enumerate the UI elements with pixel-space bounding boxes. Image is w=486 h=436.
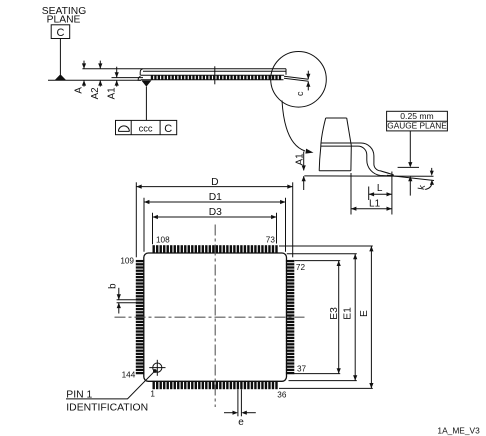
detail body left edge (319, 118, 326, 171)
svg-text:L1: L1 (369, 198, 381, 209)
dim D (136, 177, 292, 257)
svg-text:73: 73 (266, 236, 276, 245)
center line vertical (214, 225, 216, 408)
svg-text:b: b (108, 283, 119, 289)
svg-text:1A_ME_V3: 1A_ME_V3 (437, 425, 480, 435)
svg-text:ccc: ccc (139, 124, 153, 134)
dim E3 (294, 261, 341, 374)
pin 1 text (66, 389, 148, 413)
svg-text:C: C (57, 27, 65, 39)
dim A (74, 61, 87, 94)
svg-text:C: C (164, 123, 172, 135)
dim e (224, 389, 256, 428)
svg-text:A1: A1 (295, 153, 306, 165)
svg-text:A1: A1 (106, 87, 117, 99)
svg-text:D3: D3 (209, 207, 222, 218)
svg-text:108: 108 (156, 236, 170, 245)
dim A2 (90, 61, 103, 100)
side view lead band bottom (141, 79, 284, 81)
svg-text:IDENTIFICATION: IDENTIFICATION (66, 402, 148, 413)
svg-text:c: c (295, 91, 305, 96)
side view lead ticks (151, 75, 281, 79)
ccc leader (145, 87, 147, 121)
seating plane label (42, 6, 86, 26)
dim k (416, 168, 434, 191)
svg-text:1: 1 (150, 390, 155, 399)
svg-text:E: E (359, 310, 370, 317)
detail k angle line (387, 175, 434, 180)
svg-text:144: 144 (122, 371, 136, 380)
svg-text:L: L (377, 183, 383, 194)
main view body (144, 253, 287, 381)
svg-text:D: D (211, 177, 218, 188)
dim A1 (106, 67, 143, 100)
side view lead band top (141, 74, 285, 76)
center line horizontal (115, 316, 305, 318)
svg-text:A: A (74, 87, 85, 94)
dim b (108, 283, 136, 314)
main view pins (136, 245, 294, 389)
svg-text:72: 72 (296, 263, 306, 272)
side view left lead tip (138, 76, 141, 80)
svg-text:E1: E1 (343, 307, 354, 320)
detail body right edge (347, 118, 352, 171)
datum ccc triangle (141, 80, 151, 86)
gauge plane line (398, 166, 419, 168)
side view left end cap (140, 69, 143, 76)
svg-text:PIN 1: PIN 1 (66, 389, 92, 400)
dim E (279, 246, 374, 388)
svg-text:A2: A2 (90, 87, 101, 99)
svg-text:0.25 mm: 0.25 mm (400, 111, 433, 121)
side view right protruding lead (284, 76, 309, 81)
pin 1 leader (66, 370, 156, 399)
side view center tick (214, 66, 216, 84)
ccc feature control frame (116, 120, 177, 135)
svg-text:37: 37 (297, 364, 307, 373)
svg-text:E3: E3 (329, 307, 340, 320)
pin 1 identification circle (149, 360, 165, 376)
detail circle (271, 52, 327, 108)
datum C box (51, 25, 69, 39)
pin number labels (120, 236, 306, 400)
detail seating plane line (304, 175, 433, 177)
svg-text:e: e (238, 417, 244, 428)
side view body top line with A extension (82, 68, 286, 70)
dim D3 (153, 207, 277, 244)
detail body bottom (319, 170, 351, 172)
dim A1 detail (295, 152, 306, 191)
detail body top (326, 117, 347, 119)
dim E1 (287, 254, 358, 381)
detail lead outline (321, 143, 393, 176)
side view body second line (143, 70, 286, 72)
dim L (369, 172, 392, 215)
svg-text:36: 36 (277, 391, 287, 400)
dim c (295, 71, 310, 96)
detail leader curve (282, 101, 314, 154)
dim D1 (144, 192, 286, 252)
svg-text:PLANE: PLANE (47, 15, 81, 26)
datum C leader (59, 39, 61, 75)
dim L1 (351, 173, 392, 215)
svg-text:GAUGE PLANE: GAUGE PLANE (387, 121, 447, 131)
svg-text:D1: D1 (209, 192, 222, 203)
side view right end cap (285, 69, 287, 75)
seating plane line (48, 79, 141, 81)
datum C triangle (55, 74, 67, 80)
svg-text:109: 109 (120, 257, 134, 266)
gauge plane leader (408, 131, 412, 196)
gauge plane box (387, 111, 448, 131)
